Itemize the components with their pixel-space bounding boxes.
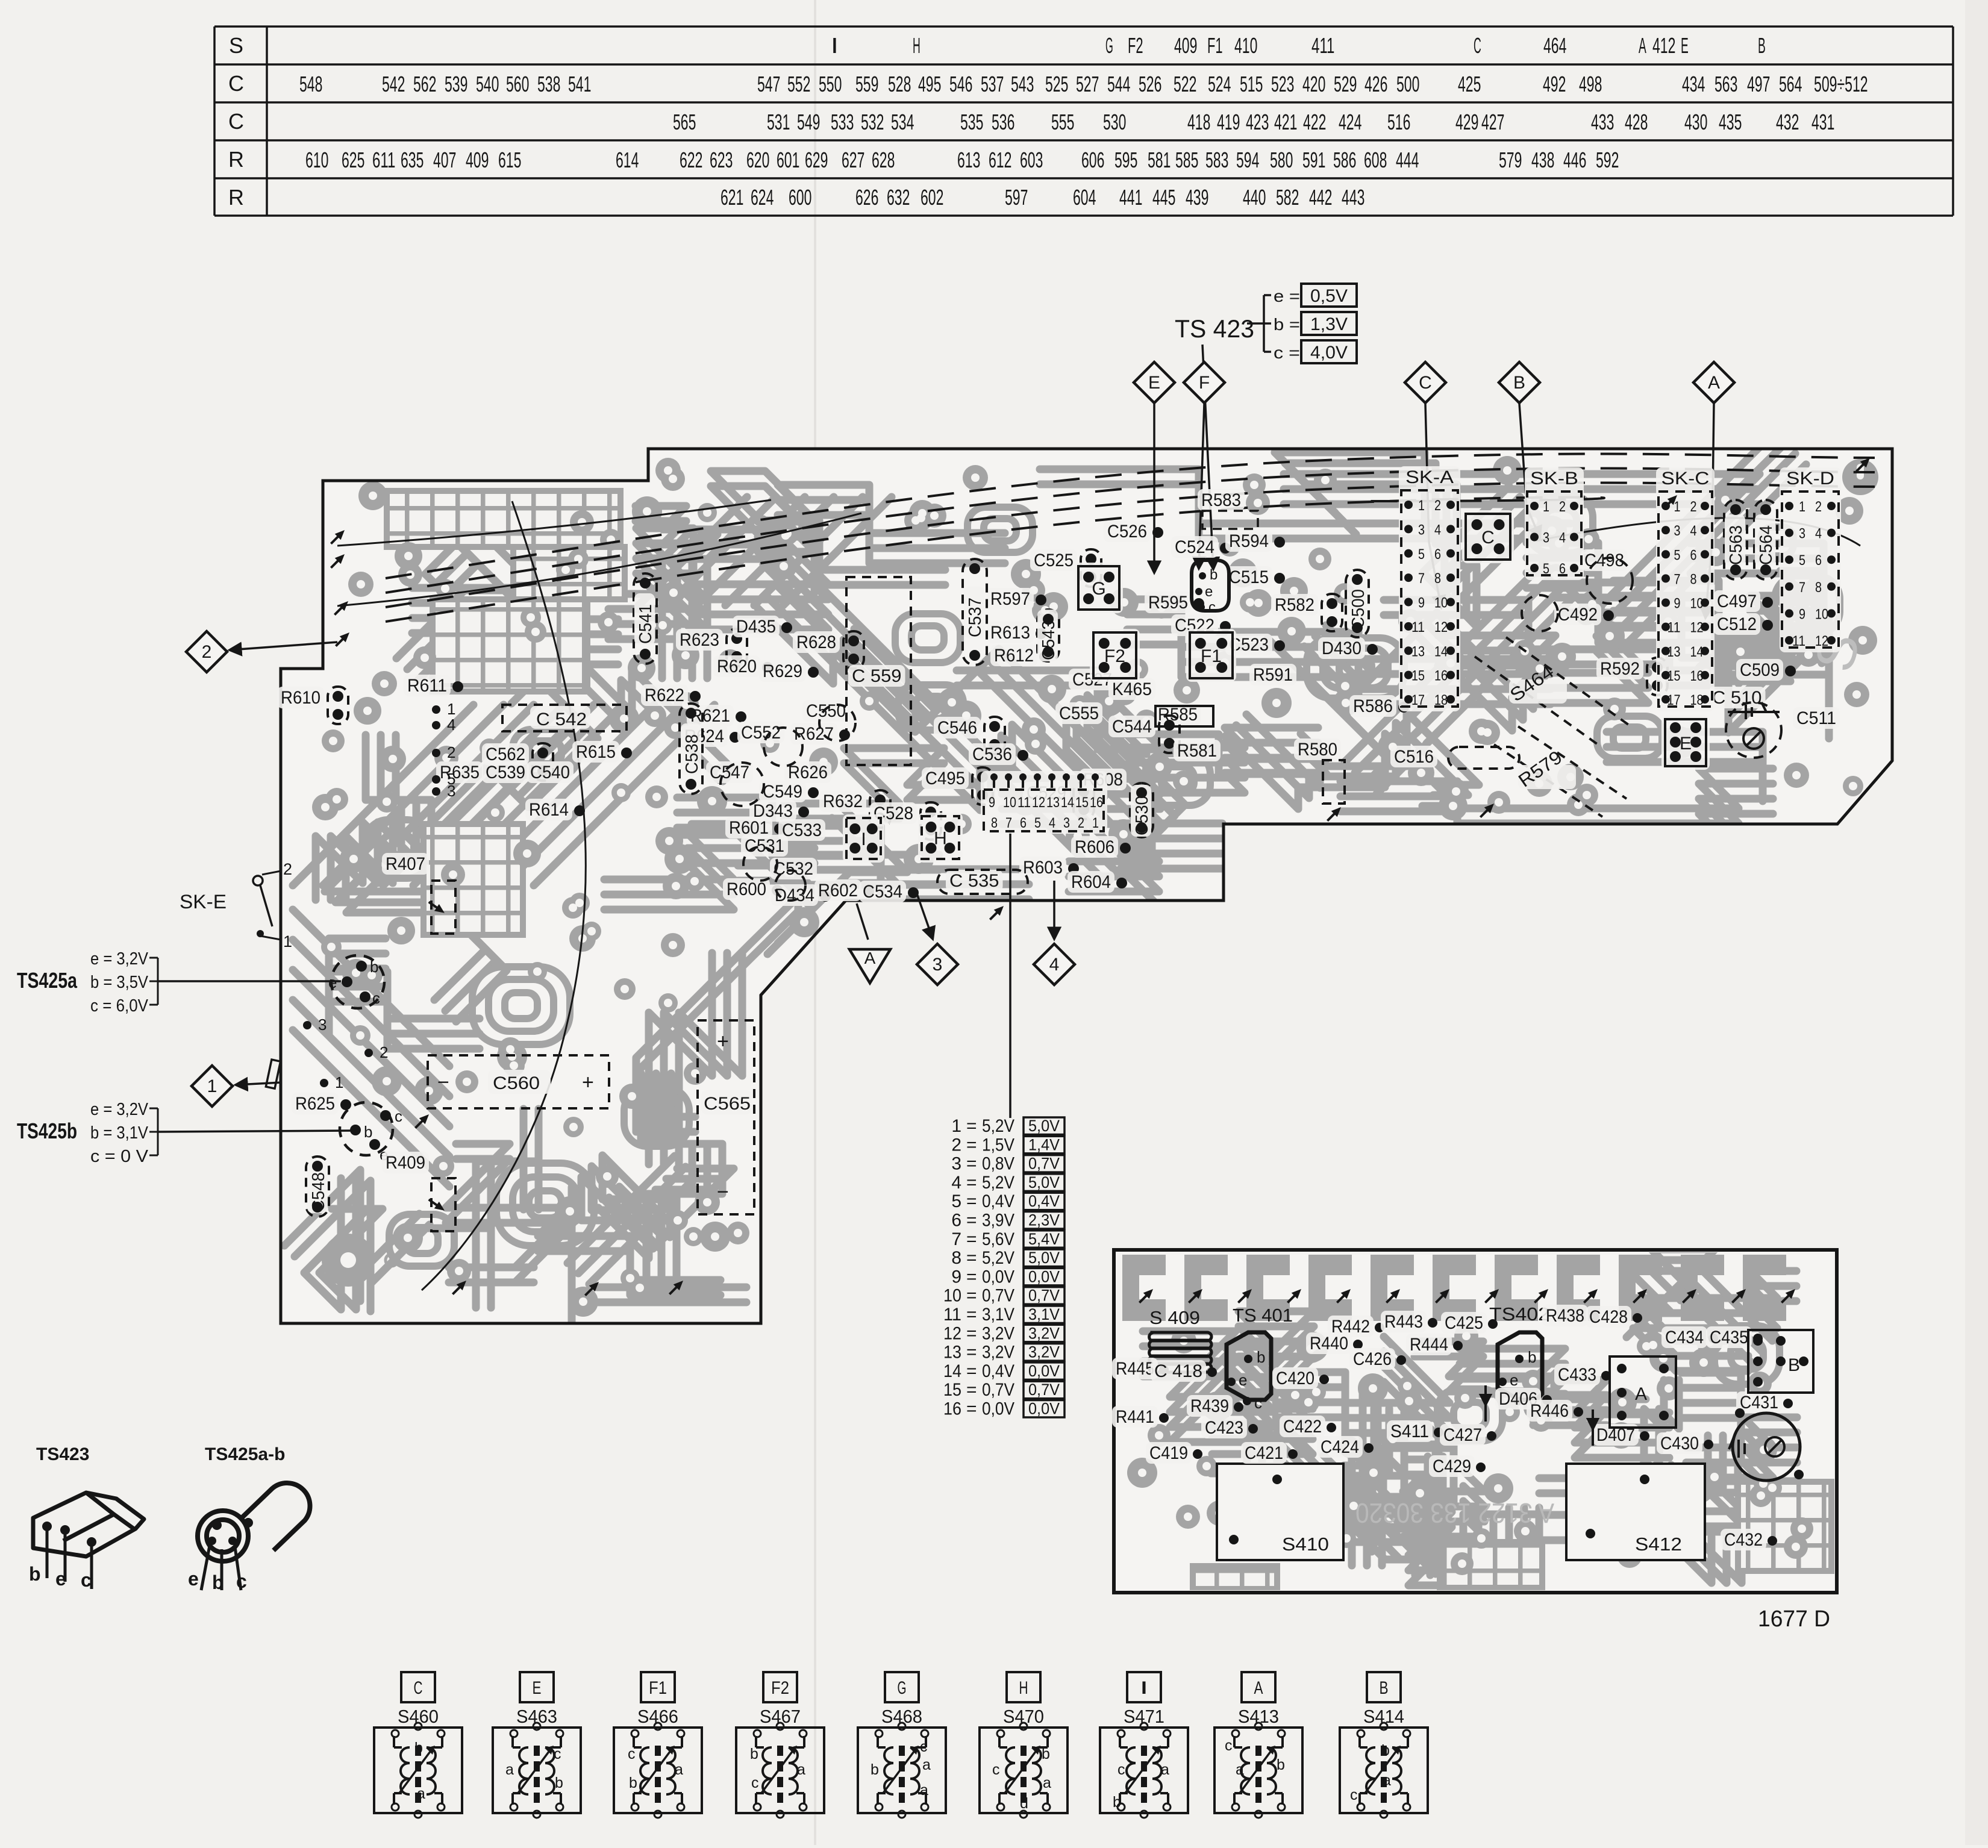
svg-text:e: e [1510,1371,1518,1389]
svg-text:0,4V: 0,4V [982,1361,1014,1381]
capacitor C426 [1349,1348,1395,1370]
capacitor C524 [1171,536,1218,558]
svg-text:TS 401: TS 401 [1233,1305,1293,1326]
svg-text:421: 421 [1274,110,1297,134]
svg-text:1: 1 [1418,498,1425,514]
capacitor C495 [922,767,969,789]
module C outline [1462,510,1514,563]
svg-text:445: 445 [1152,185,1175,210]
svg-text:=: = [966,1323,977,1343]
svg-text:C515: C515 [1229,567,1269,587]
svg-text:3: 3 [1418,522,1425,538]
wire TS425a leader [158,980,341,982]
svg-text:495: 495 [918,72,941,96]
svg-text:C495: C495 [925,769,965,788]
svg-text:2,3V: 2,3V [1028,1211,1060,1229]
capacitor C432 [1721,1529,1766,1550]
diode D434 [771,884,818,906]
svg-text:632: 632 [887,185,910,210]
svg-text:425: 425 [1458,72,1481,96]
svg-text:2: 2 [1690,499,1697,515]
svg-text:11: 11 [1792,633,1805,649]
svg-text:7: 7 [1005,815,1012,831]
svg-text:C427: C427 [1443,1425,1482,1445]
svg-text:1: 1 [1092,815,1099,831]
resistor R612 [990,645,1037,666]
capacitor C543 [1037,610,1059,661]
svg-text:e =: e = [1274,287,1300,305]
svg-text:R622: R622 [645,685,684,705]
capacitor C533 [778,819,825,841]
svg-text:3: 3 [1543,530,1549,546]
svg-text:8: 8 [1690,571,1697,587]
svg-text:8: 8 [1815,579,1822,596]
svg-text:5: 5 [1418,546,1425,563]
svg-text:492: 492 [1543,72,1566,96]
svg-text:C: C [1474,33,1481,58]
svg-text:C425: C425 [1445,1313,1483,1333]
svg-text:=: = [966,1361,977,1381]
svg-text:S413: S413 [1238,1706,1279,1727]
svg-text:S410: S410 [1282,1534,1329,1555]
capacitor C539 [482,761,529,783]
svg-text:S460: S460 [398,1706,439,1727]
connector SK-D [1780,467,1841,652]
svg-text:625: 625 [342,148,364,172]
svg-text:SK-C: SK-C [1661,469,1710,489]
svg-text:435: 435 [1719,110,1742,134]
svg-text:439: 439 [1186,185,1208,210]
svg-text:R627: R627 [794,724,834,744]
svg-text:523: 523 [1271,72,1294,96]
svg-text:15: 15 [1411,668,1425,684]
capacitor C552 outline [764,728,802,766]
resistor R407 [382,853,429,875]
capacitor C500 [1346,570,1369,637]
svg-text:R626: R626 [788,763,828,782]
inductor S471 I [1100,1672,1188,1818]
svg-text:0,7V: 0,7V [1028,1287,1060,1305]
svg-text:A 3122 133 30320: A 3122 133 30320 [1355,1497,1554,1529]
resistor R442 [1328,1316,1374,1337]
svg-text:9: 9 [1418,595,1425,611]
svg-text:5,0V: 5,0V [1028,1173,1060,1191]
module I outline [843,814,884,863]
svg-text:3: 3 [447,782,455,800]
svg-text:6: 6 [1020,815,1027,831]
capacitor C523 [1225,634,1272,655]
resistor R582 [1271,594,1318,616]
svg-text:14: 14 [1690,644,1704,660]
small PCB board 1677D outline and copper [1114,1250,1837,1593]
svg-text:4: 4 [1559,530,1566,546]
svg-text:540: 540 [476,72,499,96]
svg-text:b: b [1042,1746,1050,1762]
inductor S414 B [1340,1672,1428,1818]
resistor R632 [819,790,866,812]
svg-text:C526: C526 [1107,522,1147,542]
module E outline [1661,716,1710,770]
svg-text:500: 500 [1396,72,1419,96]
svg-text:C565: C565 [704,1094,751,1114]
svg-text:c: c [1350,1787,1358,1803]
wire TS423 leader [1202,345,1213,569]
svg-text:2: 2 [1559,499,1566,515]
svg-text:0,7V: 0,7V [1028,1155,1060,1173]
resistor R620 [713,655,760,677]
resistor R446 [1527,1400,1572,1422]
svg-text:C511: C511 [1796,708,1836,728]
svg-text:531: 531 [767,110,790,134]
svg-text:C 535: C 535 [949,871,999,891]
svg-text:R444: R444 [1410,1335,1448,1355]
coil S410 [1217,1464,1343,1560]
svg-text:R581: R581 [1177,741,1217,761]
wire copper traces main board [284,432,1877,1329]
svg-text:R583: R583 [1201,490,1241,510]
resistor R625 [292,1093,339,1114]
svg-text:4: 4 [951,1173,961,1193]
svg-text:3,2V: 3,2V [982,1323,1014,1343]
svg-text:R623: R623 [680,630,719,650]
svg-text:560: 560 [506,72,529,96]
svg-text:b: b [1210,567,1217,583]
svg-text:541: 541 [568,72,591,96]
svg-text:TS425a: TS425a [17,968,78,993]
module F2 outline [1090,629,1140,682]
svg-text:c: c [751,1775,759,1791]
node 3 marker [917,944,958,985]
resistor R585 outline [1155,706,1213,726]
svg-text:S463: S463 [516,1706,557,1727]
svg-text:a: a [922,1756,931,1773]
svg-text:R606: R606 [1075,837,1114,857]
svg-text:S412: S412 [1635,1534,1682,1555]
capacitor C428 [1586,1306,1631,1328]
capacitor C552 [737,722,784,743]
svg-text:3: 3 [951,1154,961,1174]
capacitor C532 [770,858,817,879]
svg-text:C423: C423 [1205,1418,1243,1438]
svg-text:2: 2 [951,1135,961,1155]
node E marker [1134,362,1175,403]
svg-text:R613: R613 [990,623,1030,643]
svg-text:a: a [417,1785,425,1802]
wire node 1 leader [236,1082,282,1085]
svg-text:16: 16 [1090,794,1103,811]
svg-text:13: 13 [1668,644,1681,660]
svg-text:0,4V: 0,4V [982,1191,1014,1211]
svg-text:10: 10 [1434,595,1448,611]
svg-text:=: = [966,1343,977,1363]
svg-text:b: b [750,1746,758,1762]
svg-text:14: 14 [1061,794,1074,811]
svg-text:563: 563 [1714,72,1737,96]
resistor R623 [676,629,723,651]
svg-text:18: 18 [1690,692,1704,708]
svg-text:C492: C492 [1558,605,1598,625]
svg-text:R445: R445 [1116,1359,1154,1379]
capacitor C498 outline [1587,558,1633,604]
svg-text:TS425a-b: TS425a-b [205,1444,285,1464]
transistor TS425a pads [331,955,384,1008]
svg-text:e: e [55,1568,66,1590]
svg-text:G: G [1105,33,1113,58]
svg-text:0,0V: 0,0V [1028,1400,1060,1418]
svg-text:C 510: C 510 [1712,688,1762,708]
svg-text:=: = [966,1154,977,1174]
svg-text:4,0V: 4,0V [1310,343,1348,363]
svg-text:S: S [229,33,243,58]
svg-text:C537: C537 [966,598,985,637]
svg-text:=: = [966,1211,977,1231]
trimmer inside C510 [1743,728,1764,749]
svg-text:17: 17 [1411,692,1425,708]
capacitor C534 [859,881,906,902]
svg-text:3: 3 [933,955,943,975]
capacitor C515 [1225,566,1272,588]
svg-text:C 542: C 542 [536,710,587,729]
svg-text:626: 626 [855,185,878,210]
capacitor C427 [1440,1424,1486,1446]
svg-text:c = 6,0V: c = 6,0V [90,996,149,1016]
svg-text:522: 522 [1174,72,1196,96]
wire node 4 leader [1053,881,1055,938]
diode D406 [1495,1388,1541,1409]
svg-text:0,7V: 0,7V [982,1286,1014,1306]
svg-text:B: B [1788,1355,1800,1375]
svg-text:8: 8 [951,1248,961,1268]
capacitor C435 [1706,1326,1752,1348]
svg-text:2: 2 [380,1043,388,1061]
capacitor C510 [1708,687,1766,708]
svg-text:526: 526 [1139,72,1161,96]
svg-text:12: 12 [1032,794,1045,811]
capacitor C540 [527,761,574,783]
svg-text:498: 498 [1579,72,1602,96]
svg-text:433: 433 [1591,110,1614,134]
svg-text:12: 12 [943,1323,961,1343]
capacitor C555 [1055,702,1102,724]
node B marker [1499,362,1540,403]
svg-text:C560: C560 [493,1073,540,1093]
svg-text:585: 585 [1175,148,1198,172]
svg-text:S414: S414 [1363,1706,1404,1727]
svg-text:R600: R600 [727,879,766,899]
node F marker [1184,362,1225,403]
svg-text:G: G [898,1678,907,1698]
svg-text:TS402: TS402 [1489,1303,1549,1325]
svg-text:K465: K465 [1112,679,1152,699]
svg-text:S466: S466 [637,1706,678,1727]
svg-text:1,5V: 1,5V [982,1135,1014,1155]
inductor S470 H [980,1672,1067,1818]
svg-text:592: 592 [1596,148,1619,172]
inductor S411 [1387,1420,1433,1442]
svg-text:e: e [1239,1371,1247,1389]
svg-text:C549: C549 [763,782,802,802]
svg-text:F2: F2 [1128,33,1143,58]
svg-text:613: 613 [957,148,980,172]
capacitor C512 [1713,613,1760,635]
module F1 outline [1186,629,1236,682]
resistor R579 outline [1494,726,1627,817]
svg-text:I: I [831,33,839,58]
svg-text:R446: R446 [1530,1401,1569,1421]
resistor R622 [641,684,688,706]
svg-text:525: 525 [1045,72,1068,96]
svg-text:b: b [370,958,378,976]
capacitor C498 [1581,549,1628,571]
svg-text:R440: R440 [1310,1334,1348,1353]
wire node A leader [857,904,868,940]
svg-text:C429: C429 [1433,1456,1471,1476]
svg-text:10: 10 [1815,606,1828,622]
svg-text:TS423: TS423 [36,1444,89,1464]
capacitor C546 [934,717,981,738]
node 2 marker [186,631,227,672]
wire C leader [1425,404,1441,607]
wire long diagonal curve [422,501,586,1290]
svg-text:F2: F2 [771,1678,789,1698]
svg-text:R604: R604 [1071,872,1111,892]
wire TS425b leader [158,1131,352,1132]
resistor R591 [1249,664,1296,685]
svg-text:562: 562 [413,72,436,96]
svg-text:16: 16 [1434,668,1448,684]
arrows small board top [1136,1286,1156,1306]
svg-text:R603: R603 [1023,858,1063,878]
svg-text:5: 5 [1674,547,1681,563]
module G outline [1075,563,1123,613]
svg-text:6: 6 [1815,552,1822,569]
svg-text:0,0V: 0,0V [1028,1267,1060,1285]
svg-text:R621: R621 [690,706,730,726]
svg-text:601: 601 [777,148,799,172]
svg-text:c: c [1117,1761,1125,1778]
svg-text:R582: R582 [1275,595,1314,615]
capacitor C542 outline [502,705,627,731]
svg-text:C531: C531 [745,836,784,856]
svg-text:528: 528 [888,72,911,96]
svg-text:C538: C538 [683,734,702,774]
svg-text:409: 409 [466,148,489,172]
resistor R586 [1349,695,1396,717]
svg-text:c: c [395,1107,402,1125]
wire node 2 leader [230,642,337,650]
resistor R583 [1198,489,1245,511]
svg-text:10: 10 [1690,596,1704,612]
capacitor C433 [1554,1364,1600,1385]
inductor S464 outline [1475,637,1633,747]
svg-text:H: H [934,829,947,849]
svg-text:R635: R635 [440,763,480,782]
svg-text:C433: C433 [1558,1365,1596,1385]
node keyhole pad top right [1842,459,1878,495]
svg-text:524: 524 [1208,72,1231,96]
svg-text:E: E [533,1678,542,1698]
svg-text:581: 581 [1148,148,1171,172]
svg-text:15: 15 [943,1380,961,1400]
parts index table [214,27,1953,216]
svg-text:a: a [920,1782,928,1799]
svg-text:A: A [1639,33,1646,58]
node C marker [1405,362,1446,403]
svg-text:R592: R592 [1600,659,1640,679]
capacitor C492 outline [1522,595,1558,631]
svg-text:e: e [1205,584,1213,600]
svg-text:R597: R597 [990,589,1030,609]
svg-text:440: 440 [1243,185,1266,210]
resistor R441 [1112,1406,1158,1428]
svg-text:S468: S468 [881,1706,922,1727]
resistor R438 [1542,1305,1588,1326]
svg-text:R439: R439 [1190,1396,1229,1416]
svg-text:3: 3 [318,1016,327,1034]
svg-text:1: 1 [335,1073,343,1091]
svg-text:418: 418 [1187,110,1210,134]
svg-text:628: 628 [872,148,895,172]
capacitor C497 [1713,590,1760,612]
capacitor C559 [848,665,905,687]
svg-text:422: 422 [1303,110,1326,134]
inductor S460 C [374,1672,462,1818]
svg-text:1: 1 [1674,499,1681,515]
svg-text:C: C [414,1678,423,1698]
svg-text:549: 549 [797,110,820,134]
svg-text:C512: C512 [1717,614,1757,634]
svg-text:15: 15 [1075,794,1089,811]
svg-text:E: E [1148,373,1160,393]
resistor R583 outline [1202,511,1258,529]
svg-text:12: 12 [1815,633,1828,649]
resistor R409 outline [431,1178,455,1231]
svg-text:7: 7 [1799,579,1805,596]
svg-text:b = 3,1V: b = 3,1V [90,1123,149,1143]
svg-text:C540: C540 [530,763,570,782]
capacitor C420 [1272,1367,1318,1389]
trimmer capacitor C431 [1733,1413,1800,1481]
svg-text:C497: C497 [1717,592,1757,611]
svg-text:3,1V: 3,1V [1028,1305,1060,1323]
svg-text:428: 428 [1625,110,1648,134]
svg-text:b: b [1381,1742,1390,1759]
svg-text:3,2V: 3,2V [982,1343,1014,1363]
svg-text:7: 7 [1418,570,1425,587]
svg-text:R438: R438 [1546,1306,1584,1326]
svg-text:8: 8 [1434,570,1441,587]
svg-text:410: 410 [1234,33,1257,58]
svg-text:e: e [188,1568,199,1590]
svg-text:C430: C430 [1660,1434,1699,1453]
svg-text:E: E [1681,33,1689,58]
svg-text:1: 1 [1543,499,1549,515]
svg-text:2: 2 [447,743,455,761]
svg-text:18: 18 [1434,692,1448,708]
svg-text:3: 3 [1674,523,1681,539]
svg-text:509÷512: 509÷512 [1814,72,1868,96]
svg-text:5,6V: 5,6V [982,1229,1014,1249]
svg-text:424: 424 [1339,110,1361,134]
resistor R604 [1067,871,1114,893]
resistor R592 [1596,658,1643,679]
svg-text:c: c [1208,599,1216,616]
svg-text:a: a [797,1761,805,1778]
svg-text:b: b [414,1740,423,1756]
svg-text:624: 624 [751,185,774,210]
svg-text:444: 444 [1396,148,1419,172]
svg-text:4: 4 [1049,815,1055,831]
